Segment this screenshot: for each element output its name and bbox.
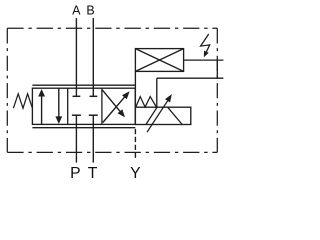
enclosure dash-dot border bottom <box>7 151 217 153</box>
proportional parallel line top <box>32 84 135 86</box>
amplifier X diagonal 2 <box>135 49 183 72</box>
electric signal bolt <box>201 34 210 54</box>
blocked port bar P <box>72 114 81 116</box>
cell1 flow arrow down shaft <box>58 88 60 117</box>
cell3 crossed arrow 1 shaft <box>103 97 125 123</box>
work port line A <box>75 18 77 96</box>
blocked port bar T <box>89 114 98 116</box>
work port line B <box>92 18 94 96</box>
solenoid inner diagonal <box>146 107 157 124</box>
svg-text:P: P <box>70 165 80 182</box>
enclosure dash-dot border top <box>7 27 217 29</box>
cell1 flow arrow up shaft <box>41 96 43 125</box>
proportional solenoid box <box>135 107 190 124</box>
solenoid spring zigzag <box>136 97 157 107</box>
enclosure dash-dot border right <box>216 28 218 152</box>
solenoid backslash diagonal <box>168 107 183 124</box>
svg-text:B: B <box>86 4 94 18</box>
envelope divider 2 <box>101 88 103 124</box>
drain line Y dashed <box>134 128 136 160</box>
blocked port bar A <box>73 95 81 97</box>
svg-text:A: A <box>72 4 81 18</box>
tank port line T <box>92 116 94 163</box>
electric wire 1 <box>184 59 224 61</box>
valve body envelope <box>32 88 135 124</box>
svg-text:Y: Y <box>130 165 141 182</box>
solenoid arrow head <box>165 94 172 102</box>
envelope divider 1 <box>67 88 69 124</box>
cell3 crossed arrow 2 head <box>118 109 125 117</box>
solenoid arrow shaft <box>147 101 168 132</box>
connector post left <box>134 71 136 107</box>
enclosure dash-dot border left <box>6 28 8 152</box>
cell1 flow arrow up head <box>38 89 45 97</box>
electric signal bolt head <box>204 51 209 58</box>
svg-text:T: T <box>88 165 98 182</box>
cell1 flow arrow down head <box>55 116 62 124</box>
electric wire 2 <box>157 77 224 79</box>
centering spring left <box>13 94 32 108</box>
pressure port line P <box>75 116 77 163</box>
blocked port bar B <box>90 95 98 97</box>
amplifier box <box>135 49 183 72</box>
border solid segment at wires <box>216 59 218 79</box>
proportional parallel line bottom <box>32 127 135 129</box>
amplifier X diagonal 1 <box>135 49 183 72</box>
cell3 crossed arrow 2 shaft <box>102 90 120 112</box>
connector post right <box>156 78 158 107</box>
cell3 crossed arrow 1 head <box>122 91 130 99</box>
